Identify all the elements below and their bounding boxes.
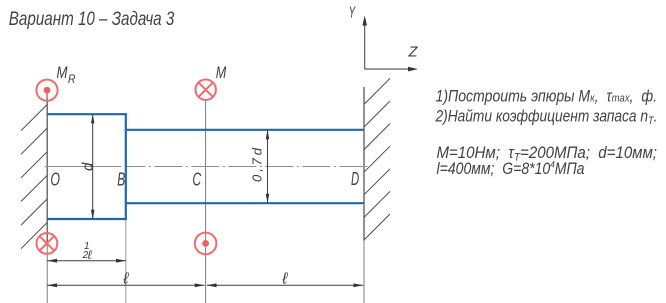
svg-text:ℓ: ℓ (281, 270, 288, 287)
bottom-left reaction symbol (circle with X) (37, 233, 58, 254)
svg-text:l=400мм; G=8*104МПа: l=400мм; G=8*104МПа (437, 160, 585, 179)
svg-text:ℓ: ℓ (122, 270, 129, 287)
shaft: large section bottom edge (47, 218, 126, 220)
extension line at O (x=47.2) below wall (46, 246, 48, 303)
svg-text:C: C (192, 170, 201, 190)
shaft: step vertical edge at B (125, 113, 127, 220)
dimension 0,7d: vertical line with arrows (267, 130, 269, 203)
svg-text:Z: Z (408, 43, 419, 60)
shaft: narrow section top edge (126, 129, 364, 131)
vertical line at C (x=205.6) (205, 100, 207, 303)
moment M_R symbol (circle with dot) (46, 90, 48, 101)
bottom-center symbol at C (circle with dot) (195, 233, 217, 255)
right wall (363, 87, 365, 241)
extension line at B (x=125.8) (125, 220, 127, 303)
svg-text:Вариант 10 – Задача 3: Вариант 10 – Задача 3 (9, 9, 175, 30)
centerline (dash-dot), solid part O to B (45, 166, 122, 168)
shaft: narrow section bottom edge (126, 202, 364, 204)
dimension l (row 2, left) (47, 284, 204, 286)
centerline (dash-dot), B to D (126, 166, 368, 168)
svg-text:B: B (117, 170, 125, 190)
svg-text:R: R (68, 74, 76, 86)
svg-text:O: O (50, 170, 60, 190)
left wall (46, 99, 48, 246)
moment M symbol at C (circle with X) (196, 80, 216, 100)
shaft: large section top edge (47, 113, 126, 115)
svg-text:M: M (216, 63, 227, 82)
svg-text:D: D (351, 169, 359, 189)
svg-text:2)Найти коэффициент запаса nТ.: 2)Найти коэффициент запаса nТ. (435, 107, 658, 127)
axis Y (364, 24, 366, 69)
svg-text:M: M (57, 63, 69, 82)
extension line at D (x=364) below wall (363, 241, 365, 303)
dimension l (row 2, right) (207, 284, 364, 286)
dimension d: vertical line with arrows (92, 114, 94, 219)
axis Z (365, 68, 409, 70)
svg-text:d: d (80, 162, 97, 171)
left wall hatching (21, 105, 47, 249)
svg-text:Y: Y (349, 4, 356, 21)
right wall hatching (364, 78, 390, 240)
dimension 1/2 l (row 1) (47, 260, 126, 262)
svg-text:0,7d: 0,7d (250, 147, 265, 182)
